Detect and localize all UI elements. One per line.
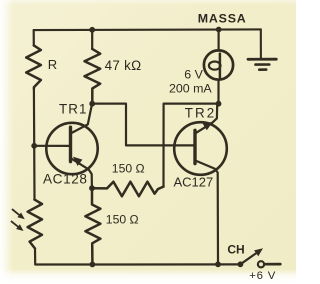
ground [248,29,276,69]
wire: left vertical branch (top part) [33,30,35,45]
resistor 150 Ohm vertical (TR1 emitter to ground rail) [85,188,100,262]
light arrow 1 [13,210,25,220]
svg-text:TR1: TR1 [59,101,88,116]
node: top junction at lamp (MASSA) [216,27,222,33]
node A: 47k / TR1 collector / TR2 base coupling [89,101,95,107]
node: top-left junction of 47k [89,27,95,33]
wire: left vertical between R and LDR [33,89,36,200]
node: vertical 150 ohm at bottom rail [90,262,96,268]
wire: TR1 base lead [34,145,69,147]
svg-text:6 V: 6 V [184,67,203,81]
wire: top supply rail (massa) [34,28,261,31]
wire: coupling node A to TR2 base [92,104,193,146]
svg-text:+6 V: +6 V [249,270,276,282]
transistor TR2 (AC127) [174,105,227,263]
wire: 47k top lead [91,30,93,49]
light arrow 2 [12,222,24,232]
svg-text:MASSA: MASSA [198,11,247,25]
node: TR1 emitter junction [89,185,95,191]
svg-text:R: R [48,57,57,72]
resistor 150 Ohm horizontal (emitter coupling) [92,182,164,197]
svg-text:150 Ω: 150 Ω [106,213,139,227]
node: TR1 base junction on left rail [31,143,37,149]
wire: bottom rail [92,263,239,265]
node: lamp bottom / TR2 emitter junction [216,101,222,107]
svg-text:AC127: AC127 [174,175,214,190]
wire: left vertical bottom corner [35,249,92,265]
resistor R [26,45,41,88]
node: TR2 collector at bottom rail [215,261,221,267]
resistor 47 kOhm [85,49,101,101]
transistor TR1 (AC128) [46,105,97,188]
svg-text:TR2: TR2 [185,105,217,120]
switch CH [238,248,281,267]
svg-text:CH: CH [227,243,244,257]
svg-text:AC128: AC128 [43,172,88,187]
photoresistor LDR [28,200,42,249]
wire: coupling riser to lamp node [164,104,219,187]
svg-text:200 mA: 200 mA [169,82,212,96]
svg-text:47 kΩ: 47 kΩ [105,58,142,73]
lamp 6V 200mA [204,30,233,102]
svg-text:150 Ω: 150 Ω [112,162,145,176]
